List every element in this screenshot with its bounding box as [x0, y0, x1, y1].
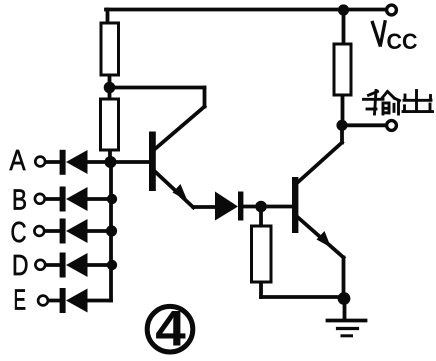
- svg-text:CC: CC: [387, 29, 418, 54]
- svg-text:B: B: [12, 185, 27, 217]
- svg-text:C: C: [11, 217, 27, 249]
- svg-text:A: A: [10, 145, 27, 177]
- svg-text:4: 4: [155, 301, 186, 357]
- svg-text:D: D: [12, 250, 29, 282]
- svg-text:E: E: [14, 285, 27, 317]
